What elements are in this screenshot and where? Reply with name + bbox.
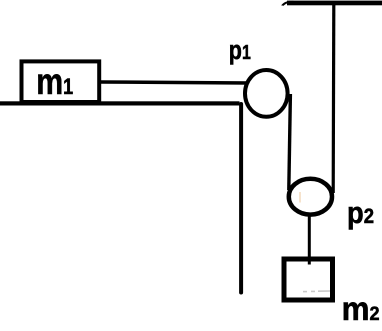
svg-text:p1: p1 [229,35,251,65]
faint highlighter mark inside P2 [299,192,301,203]
rope from P1 down to pulley P2 [289,94,291,190]
ceiling stroke taper end [281,1,293,6]
rope from m1 to pulley P1 [101,82,249,83]
svg-text:p2: p2 [347,195,374,230]
rope from ceiling to pulley P2 [332,4,336,193]
rope tail inside block m2 [308,259,311,265]
pulley P1 [245,70,288,117]
rope from P2 down to block m2 [308,216,311,265]
table surface [0,101,240,105]
block m2 [284,259,333,300]
faint pencil dashes inside m2 [303,290,330,293]
ceiling [287,1,382,6]
block m1 [22,61,100,102]
svg-text:m2: m2 [342,290,380,327]
table leg [239,104,243,293]
pulley P2 [289,179,332,215]
